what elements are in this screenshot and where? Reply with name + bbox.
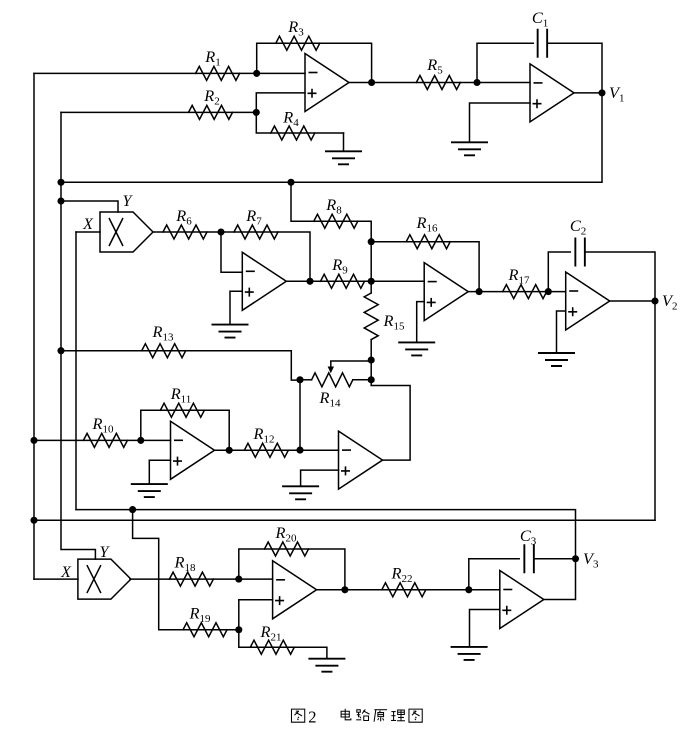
svg-text:X: X: [60, 564, 72, 581]
svg-text:2: 2: [308, 708, 316, 727]
svg-text:X: X: [82, 216, 94, 233]
